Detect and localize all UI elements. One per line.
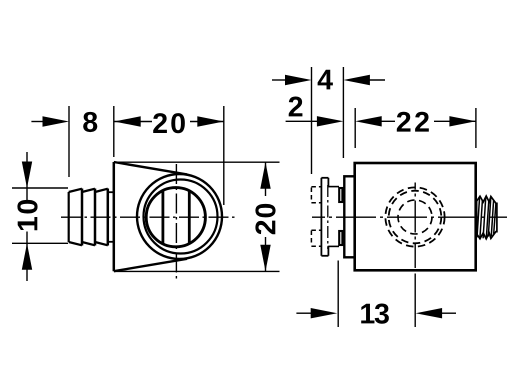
connector top (328, 186, 339, 188)
hidden cam bore outer dashed circle (385, 187, 444, 246)
left view vertical centerline (175, 164, 177, 282)
right view vertical centerline (414, 183, 416, 269)
plate (rib seen from side) (321, 178, 328, 256)
dim 8 arrow and tail (31, 116, 69, 126)
dim 20 extension line right (223, 106, 225, 205)
dim 10 extension line bottom (12, 242, 68, 244)
dowel rib 3 (95, 189, 108, 246)
dim 13 text (361, 304, 389, 324)
housing top tangent edge (114, 162, 187, 174)
dim 20 line left arrow (114, 116, 152, 126)
housing left edge (113, 162, 116, 271)
dim 22 left arrow (355, 116, 395, 126)
dim 22 right extension line (475, 108, 477, 148)
left view horizontal centerline (61, 216, 238, 218)
dim 13 right arrow (416, 308, 456, 318)
cam inner circle (146, 188, 205, 247)
dim 13 extension line left (337, 261, 339, 328)
dim 22 right arrow (434, 116, 476, 126)
hidden dowel tip bottom (dashed) (311, 230, 321, 246)
dowel neck (108, 192, 114, 242)
dim 20v extension line top (114, 161, 280, 163)
connector bottom (328, 245, 339, 247)
dim 10 text (rotated) (17, 200, 37, 230)
hidden dowel tip top (dashed) (311, 187, 321, 203)
dim 8 text (83, 112, 97, 132)
dim 4 text (318, 70, 333, 90)
hidden cam bore second dashed circle (389, 191, 442, 244)
cam slot left chord (161, 191, 164, 243)
dim 13 left arrow (296, 308, 337, 318)
cam slot right chord (188, 192, 191, 243)
dim 2 left line and arrow (286, 116, 344, 126)
clip bottom (small black square) (339, 231, 342, 245)
dim 22 text (397, 112, 429, 132)
dim 20 text (153, 113, 185, 133)
dim 10 bottom arrow (22, 232, 32, 282)
dim 8/20 shared extension line (113, 106, 115, 157)
dim 20 line right arrow (190, 116, 224, 126)
housing outer circle (137, 174, 222, 259)
screw thread (477, 196, 497, 239)
dim 2 right / dim 22 left shared extension line (354, 108, 356, 148)
dim 20v line and arrows (260, 162, 270, 271)
dim 4 left arrow (272, 75, 312, 85)
dim 20v text (rotated) (255, 204, 275, 234)
dim 8 extension line left (68, 106, 70, 177)
clip top (small black square) (339, 188, 342, 202)
dowel rib 1 (69, 189, 82, 246)
plate centerline (dash-dot) (327, 185, 329, 249)
dim 20v extension line bottom (114, 270, 280, 272)
dim 10 extension line top (12, 187, 68, 189)
dowel left cap (68, 192, 70, 242)
dim 4 right arrow (343, 75, 385, 85)
housing rim circle (144, 180, 218, 254)
flange (344, 176, 354, 257)
hidden screw hole dashed circle (398, 200, 432, 234)
dim 4 extension line right (342, 67, 344, 158)
right view horizontal centerline (312, 216, 507, 218)
body rectangle (355, 163, 476, 270)
dim 13 extension line right (screw axis) (414, 274, 416, 328)
dowel rib 2 (82, 189, 95, 246)
dim 4 extension line left (311, 67, 313, 174)
dim 10 top arrow (22, 152, 32, 200)
dim 2 text (289, 97, 303, 117)
housing bottom tangent edge (114, 259, 187, 271)
